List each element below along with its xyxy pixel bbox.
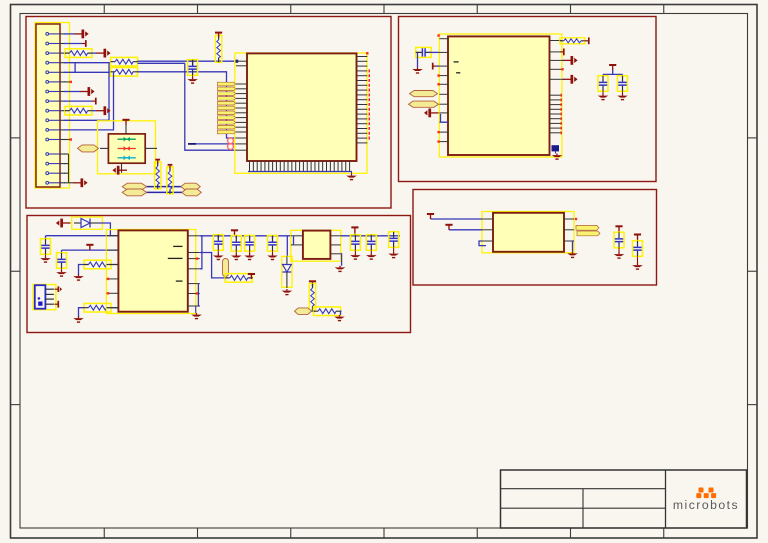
- svg-text:microbots: microbots: [673, 498, 739, 512]
